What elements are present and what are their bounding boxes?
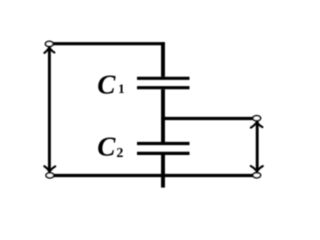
svg-text:C: C — [97, 131, 116, 161]
svg-text:C: C — [97, 69, 116, 99]
svg-text:2: 2 — [116, 146, 123, 161]
svg-text:1: 1 — [118, 81, 125, 96]
